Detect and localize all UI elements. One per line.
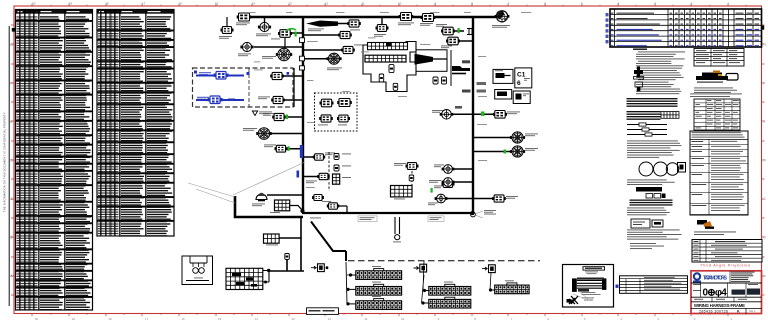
warning triangle note (252, 111, 272, 116)
wire list table 2 (97, 10, 174, 237)
svg-text:SH 1: SH 1 (749, 309, 756, 313)
svg-text:19: 19 (72, 317, 76, 321)
svg-text:TATA MOTORS: TATA MOTORS (703, 276, 728, 282)
connector C33 right of trunk1 (303, 30, 360, 39)
relay pill 3 (393, 83, 398, 90)
striped bars C (630, 200, 673, 206)
svg-text:14: 14 (252, 2, 256, 6)
connector C32 (492, 195, 518, 202)
connector C31 round (428, 194, 447, 205)
wire: blue box feed vertical (293, 68, 295, 107)
svg-text:10: 10 (398, 2, 402, 6)
connector C30 round (434, 178, 454, 189)
wire: main top bus (244, 16, 496, 18)
inline connector column mid (329, 152, 351, 191)
torque spec table (694, 49, 744, 67)
connector C19 (320, 99, 334, 107)
dashed option box (193, 68, 294, 107)
logo row divider (691, 282, 762, 284)
junction dot on trunk1 (300, 209, 304, 213)
svg-text:285436 300726: 285436 300726 (699, 309, 728, 313)
black label bar (636, 187, 662, 192)
green marker g1 (286, 29, 297, 37)
trunk2 end leaders (475, 210, 496, 218)
svg-text:11: 11 (364, 317, 367, 321)
svg-text:F: F (10, 82, 12, 86)
connector C21 (318, 115, 333, 125)
notes paragraph 3 (627, 208, 670, 216)
cable markers trunk2 (455, 60, 486, 108)
blue highlight bar on trunk1 (297, 145, 304, 178)
dark code blocks (732, 289, 761, 295)
wire: left branch L (235, 196, 303, 217)
clip box 2 (652, 220, 663, 227)
hanging connector below mid bus (393, 217, 401, 242)
feed drop to right grid (489, 273, 492, 292)
grid row R3 (349, 296, 402, 309)
tick connector on bottom feed (285, 254, 290, 260)
approval table (692, 240, 762, 263)
connector C15 (264, 145, 290, 153)
relay pill 1 (389, 65, 394, 73)
connector C2 drop (256, 17, 271, 36)
fold mark right (759, 26, 764, 30)
legend table (690, 94, 748, 216)
dotted relay cluster box (315, 93, 358, 131)
svg-text:THE INFORMATION ON THIS DOCUME: THE INFORMATION ON THIS DOCUMENT IS CONF… (3, 112, 7, 212)
company logo roundel (693, 272, 701, 282)
connector C20 (337, 99, 352, 107)
blue harness option 1 (194, 71, 250, 80)
notes paragraph 2 (627, 141, 682, 158)
small row texts (691, 297, 762, 302)
grid connector G1 (391, 186, 433, 200)
svg-text:18: 18 (105, 2, 109, 6)
projection symbols bold (701, 283, 747, 299)
svg-text:G: G (764, 43, 767, 47)
scale cells small text (693, 284, 758, 291)
splice wire diagrams (627, 123, 667, 136)
logo column divider (729, 271, 731, 283)
connector C1 on bus (236, 13, 251, 25)
svg-text:6: 6 (517, 80, 521, 87)
svg-text:C1: C1 (517, 72, 526, 79)
wire: lower trunk extension (268, 217, 304, 271)
connector C12 (270, 72, 289, 80)
connector C5 big round on bus (492, 10, 510, 27)
notes text block (633, 49, 685, 95)
connector C26 (481, 111, 520, 119)
svg-text:16: 16 (181, 317, 185, 321)
relay detail box bottom-left (182, 256, 213, 285)
fuse row 1 (368, 43, 408, 50)
label at junction (310, 217, 321, 220)
svg-text:K: K (737, 309, 740, 313)
wire: trunk 1 vertical (302, 17, 304, 213)
svg-text:10: 10 (401, 317, 405, 321)
svg-text:G: G (10, 43, 13, 47)
connector C14 round hatched (243, 128, 272, 140)
bottom right spec table (616, 276, 688, 294)
wire: branch stubs trunk2 (446, 31, 512, 199)
svg-text:20: 20 (32, 2, 36, 6)
revision zone marks blue, left of table (606, 13, 609, 43)
wire: branch stubs trunk1 (254, 33, 328, 195)
notes paragraph 4 (627, 230, 682, 240)
notes fine print above approval (630, 243, 664, 249)
svg-text:19: 19 (69, 2, 73, 6)
misc wire labels (249, 12, 531, 188)
striped spec bars B with pin grid (627, 111, 680, 120)
connector C35 below bus (374, 17, 389, 37)
title block frame (691, 271, 762, 314)
title block mid divider (691, 296, 762, 298)
trunk2 end circle (471, 212, 476, 217)
relay pill 2 (379, 74, 384, 82)
connector C7 (271, 30, 292, 40)
fuse box outline (363, 42, 416, 92)
fuse box extension with arrow (415, 50, 448, 72)
company address block (731, 272, 755, 282)
grid connector G3 (264, 234, 280, 245)
connector C6 below bus left (219, 17, 234, 39)
grid row R1 (352, 266, 402, 279)
connector C27 round hatched (510, 132, 538, 143)
connector C24 (441, 37, 460, 48)
striped spec bars A (627, 98, 678, 107)
junction squares on trunk1 (300, 38, 305, 70)
right notes bottom line (694, 232, 736, 235)
socket round C25 (432, 110, 453, 120)
detail view box (563, 265, 614, 308)
callout box D1 (493, 69, 513, 83)
svg-text:18: 18 (108, 317, 112, 321)
svg-text:15: 15 (215, 2, 219, 6)
fuse row 2 (365, 55, 406, 62)
dome connector (252, 193, 267, 206)
connector C9 round hatched (262, 38, 292, 61)
feed drop to left grid group (346, 262, 352, 306)
connector C29 round (434, 165, 454, 174)
callout box D3 (495, 90, 512, 100)
grid row R6 (491, 280, 529, 293)
connector C22 (337, 115, 350, 125)
clip bracket (467, 29, 472, 35)
svg-text:20: 20 (35, 317, 39, 321)
small connectors above mid bus (322, 201, 347, 213)
svg-text:WIRING HARNESS-FRAME: WIRING HARNESS-FRAME (694, 303, 745, 308)
grid connector G2 (270, 200, 302, 213)
connector C34 right of trunk1 (303, 45, 364, 54)
clip box 1 (631, 219, 650, 228)
bottom label box (307, 308, 339, 315)
connector C3 (398, 13, 414, 26)
drawing number row (699, 308, 756, 313)
svg-text:Third Angle Projection: Third Angle Projection (700, 263, 750, 267)
svg-text:17: 17 (145, 317, 149, 321)
right notes lines (694, 88, 737, 93)
callout box D4 (513, 91, 530, 104)
fold mark left (12, 28, 16, 32)
left margin trim line (8, 26, 10, 306)
small boxes row (646, 194, 666, 199)
arrow connector A1 (311, 264, 328, 272)
grid row R5 (424, 295, 471, 308)
bracket hatched (452, 66, 470, 74)
connector C13 (263, 113, 288, 121)
connector C17 small right (306, 173, 330, 183)
grommet circles (639, 162, 686, 176)
svg-text:12: 12 (325, 2, 329, 6)
connector C10 round hatched right (326, 53, 342, 70)
grid row R2 (349, 282, 402, 296)
wire: mid cross bus (302, 212, 474, 214)
connector C4 (420, 14, 435, 26)
connector C16 small right (313, 153, 335, 161)
sub components below fusebox (433, 50, 451, 86)
connector C28 round hatched (504, 146, 539, 157)
svg-text:17: 17 (142, 2, 146, 6)
svg-text:13: 13 (291, 317, 295, 321)
leader lines to L corner (188, 162, 305, 203)
connector C23 (436, 24, 460, 35)
connector lever icon in notes (634, 67, 644, 92)
grid row R4 (425, 282, 471, 296)
svg-text:F: F (764, 82, 766, 86)
clamp drawing with orange marks (696, 71, 738, 83)
connector C8 round (238, 42, 254, 56)
arrow connector A3 (482, 265, 495, 273)
arrow connector A2 (414, 264, 427, 272)
big terminal grid block (226, 268, 270, 289)
feed drop to mid grid group (421, 261, 426, 305)
svg-text:12: 12 (328, 317, 332, 321)
connector C18 (429, 180, 455, 187)
connector C11 in box right (258, 96, 285, 103)
tool icon orange (697, 220, 714, 229)
svg-text:11: 11 (361, 2, 364, 6)
mid bus label boxes (358, 216, 377, 222)
dashed bottom bracket (311, 222, 540, 262)
svg-text:16: 16 (178, 2, 182, 6)
notes small text under circles (627, 180, 675, 185)
svg-text:15: 15 (218, 317, 222, 321)
revision table (610, 9, 762, 47)
callout box D2 (515, 68, 532, 88)
svg-text:13: 13 (288, 2, 292, 6)
wedge harness top (306, 20, 361, 31)
zone letters left edge (10, 43, 766, 278)
wire list table 1 (16, 10, 93, 311)
inline connector column right (394, 163, 419, 191)
svg-text:14: 14 (255, 317, 259, 321)
junction dot mid bus right (470, 211, 474, 215)
blue harness option 2 (196, 96, 244, 104)
wire: trunk 2 vertical (472, 18, 474, 212)
